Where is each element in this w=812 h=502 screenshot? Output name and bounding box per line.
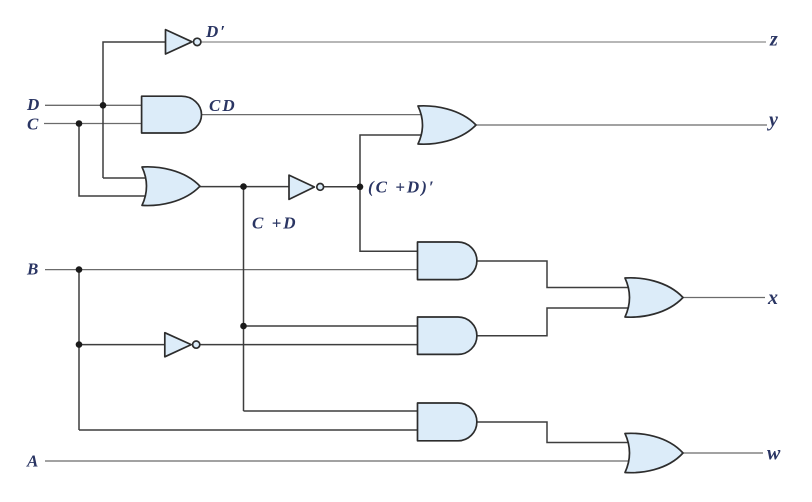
svg-text:w: w [767, 443, 781, 465]
node C+D to AND3 junction [240, 323, 247, 330]
svg-text:B: B [26, 260, 40, 279]
wire AND3 output elbow [476, 308, 633, 336]
wire D input [45, 104, 142, 106]
wire (C+D)' down to AND2 [360, 187, 419, 252]
or-gate OR4 (w) [625, 433, 683, 472]
wire C branch vertical to OR1 [79, 124, 158, 197]
svg-text:y: y [767, 109, 778, 131]
wire A input [45, 460, 633, 462]
node (C+D)' junction [357, 184, 364, 191]
svg-text:C: C [27, 115, 40, 134]
node B-branch junction [76, 266, 83, 273]
wire z output [201, 41, 766, 43]
wire C input [44, 123, 142, 125]
wire D branch vertical to NOT1 [103, 42, 166, 178]
wire B branch to AND4 [79, 429, 419, 431]
and-gate AND3 [418, 317, 477, 354]
node D-branch junction [100, 102, 107, 109]
wire NOT3 input [79, 344, 165, 346]
svg-text:x: x [767, 287, 778, 309]
wire OR1 output to NOT2 [199, 186, 289, 188]
svg-text:A: A [26, 452, 40, 471]
wire C+D branch to AND4 [244, 410, 420, 412]
wire AND2 output elbow [476, 261, 633, 288]
svg-text:C +D: C +D [252, 214, 298, 233]
node B' input junction [76, 341, 83, 348]
wire C+D branch to AND3 [244, 325, 420, 327]
and-gate AND2 [418, 242, 477, 280]
wire OR1 top input [103, 177, 158, 179]
svg-text:z: z [769, 29, 778, 51]
or-gate OR2 (y) [418, 106, 476, 144]
svg-text:CD: CD [209, 96, 237, 115]
wire w output [683, 452, 763, 454]
or-gate OR1 (C+D) [142, 167, 200, 206]
node C-branch junction [76, 120, 83, 127]
wire y output [476, 124, 767, 126]
wire C+D vertical [243, 187, 245, 411]
svg-text:D: D [26, 95, 41, 114]
wire CD to OR2 [201, 114, 432, 116]
wire x output [683, 297, 765, 299]
node C+D junction [240, 183, 247, 190]
wire (C+D)' up to OR2 [360, 135, 432, 187]
wire B' to AND3 [200, 344, 419, 346]
and-gate AND4 [418, 403, 477, 441]
wire AND4 output elbow [476, 422, 633, 443]
inverter NOT2 ((C+D)') [289, 175, 314, 199]
and-gate AND1 (CD) [142, 96, 202, 133]
svg-text:(C +D)′: (C +D)′ [368, 178, 436, 197]
inverter NOT1 (D') [166, 30, 193, 54]
wire B input [45, 269, 419, 271]
svg-text:D′: D′ [205, 22, 227, 41]
inverter NOT3 (B') [165, 333, 191, 357]
wire NOT2 output [323, 186, 360, 188]
wire B branch vertical [78, 270, 80, 430]
or-gate OR3 (x) [625, 278, 683, 317]
